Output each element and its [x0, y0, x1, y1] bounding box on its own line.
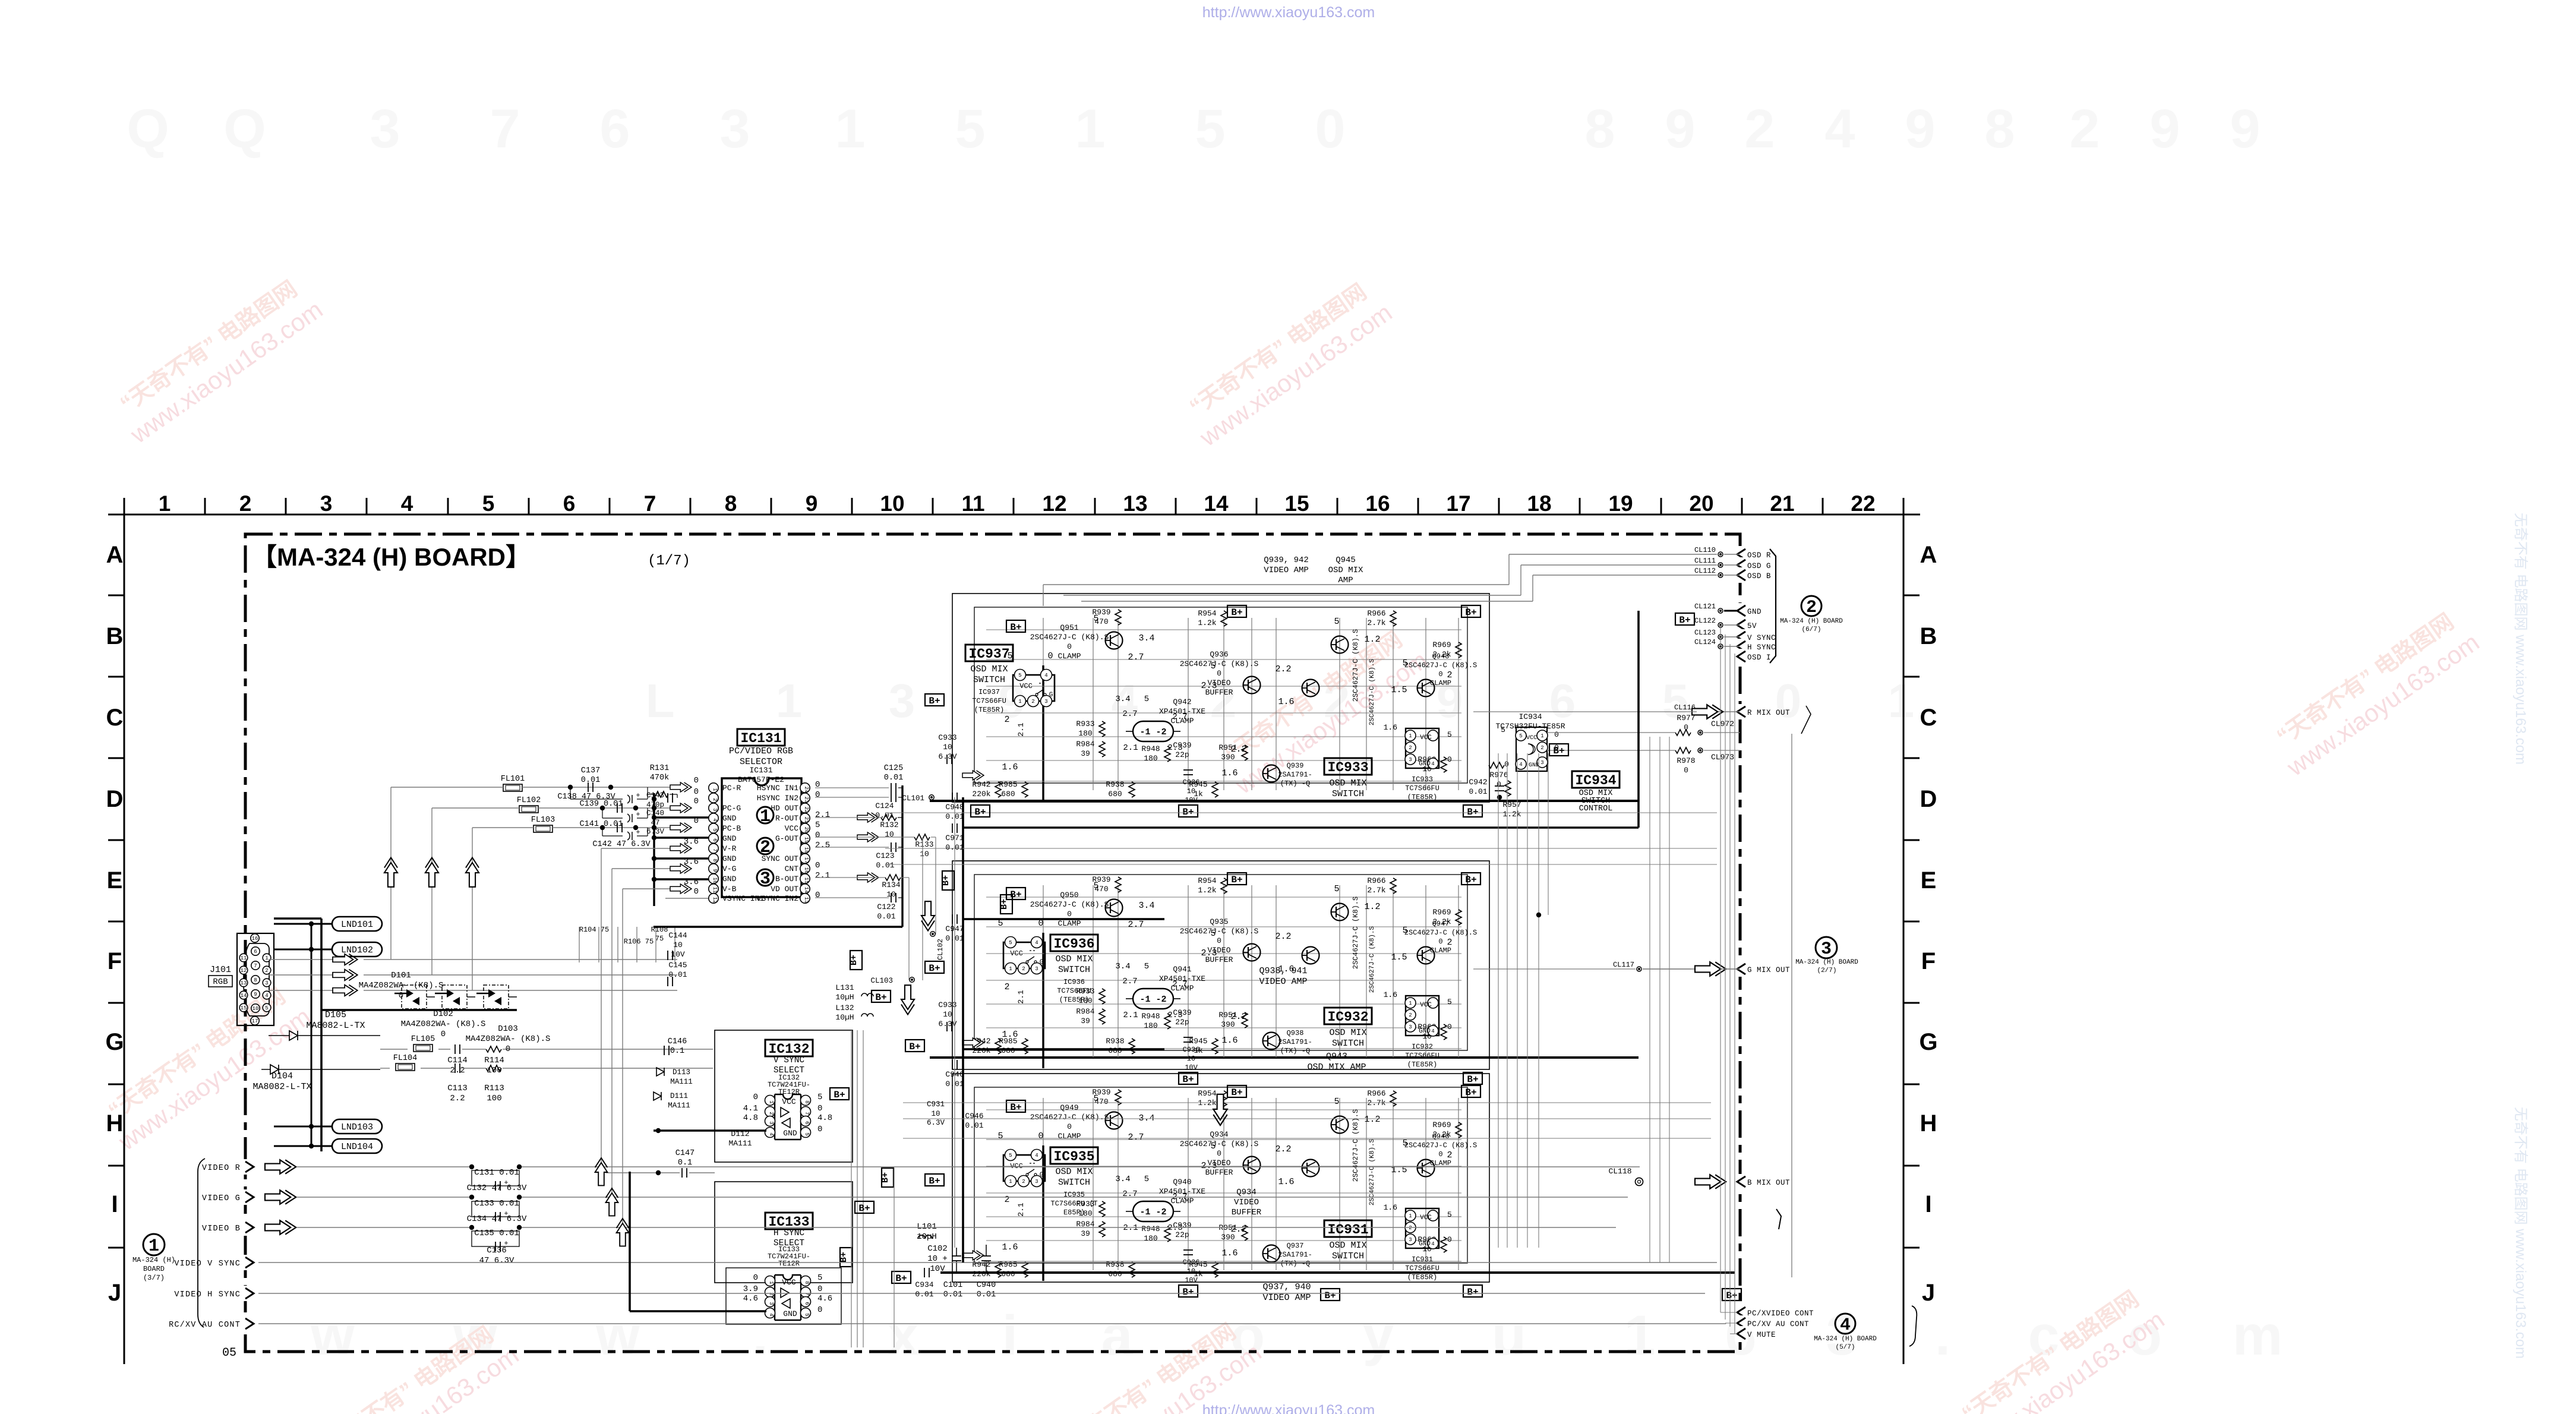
svg-text:5: 5: [482, 491, 495, 516]
svg-text:VIDEO R: VIDEO R: [202, 1164, 241, 1173]
svg-text:3: 3: [1035, 966, 1038, 972]
svg-text:3: 3: [1035, 1179, 1038, 1185]
svg-text:3.4: 3.4: [1115, 1175, 1130, 1184]
svg-text:Q936: Q936: [1210, 650, 1228, 659]
svg-text:(2/7): (2/7): [1817, 967, 1836, 974]
transistor Q936: [1243, 677, 1261, 694]
svg-text:10µH: 10µH: [835, 1013, 854, 1022]
svg-text:CONTROL: CONTROL: [1579, 804, 1613, 813]
svg-text:0.01: 0.01: [945, 934, 964, 943]
svg-text:17: 17: [1446, 491, 1470, 516]
brace group 2: [1770, 549, 1776, 663]
svg-text:CL124: CL124: [1694, 638, 1716, 646]
node VIDEO G: [243, 1189, 256, 1205]
node VIDEO R: [243, 1159, 256, 1175]
hollow down arrow CL103: [901, 985, 914, 1014]
svg-text:1.6: 1.6: [1278, 1177, 1294, 1187]
svg-text:2: 2: [760, 838, 771, 858]
svg-text:IC131: IC131: [749, 766, 772, 775]
svg-text:R134: R134: [882, 880, 900, 889]
svg-text:2: 2: [1004, 715, 1009, 725]
svg-text:3: 3: [768, 1302, 774, 1305]
transistor Q948: [1418, 680, 1435, 697]
svg-text:2.7k: 2.7k: [1367, 886, 1385, 895]
svg-text:R969: R969: [1432, 908, 1451, 917]
net LND103: [332, 1119, 382, 1134]
net LND101: [332, 917, 382, 931]
svg-text:1.2k: 1.2k: [1502, 810, 1521, 819]
svg-text:680: 680: [1001, 1046, 1015, 1055]
svg-text:m: m: [2233, 1304, 2283, 1367]
svg-text:OSD MIX: OSD MIX: [1329, 778, 1366, 788]
svg-text:C936: C936: [1183, 778, 1200, 787]
svg-text:20: 20: [1689, 491, 1713, 516]
svg-text:R945: R945: [1189, 1037, 1207, 1046]
svg-text:0: 0: [817, 1125, 822, 1134]
svg-text:5: 5: [817, 1273, 822, 1283]
svg-text:1.2k: 1.2k: [1198, 886, 1216, 895]
op-amp U IC936 label: [1050, 935, 1098, 951]
svg-text:MA-324 (H) BOARD: MA-324 (H) BOARD: [1780, 618, 1843, 625]
svg-text:MA-324 (H) BOARD: MA-324 (H) BOARD: [1814, 1336, 1877, 1343]
svg-text:1.5: 1.5: [1391, 685, 1407, 695]
svg-text:10: 10: [1187, 1267, 1195, 1276]
svg-text:Q937, 940: Q937, 940: [1262, 1282, 1311, 1292]
svg-text:(TE85R): (TE85R): [1407, 1273, 1437, 1282]
svg-text:Q: Q: [223, 99, 266, 159]
svg-text:0: 0: [1217, 669, 1221, 678]
svg-text:3: 3: [719, 99, 750, 159]
svg-text:2SC4627J-C (K8).S: 2SC4627J-C (K8).S: [1352, 1109, 1360, 1182]
svg-text:2.1: 2.1: [1123, 1011, 1138, 1020]
svg-text:R114: R114: [484, 1056, 504, 1065]
svg-text:2: 2: [1022, 966, 1025, 972]
svg-text:G: G: [105, 1029, 124, 1055]
svg-text:680: 680: [1001, 790, 1015, 798]
node 3 circled: [757, 869, 774, 886]
svg-text:VIDEO AMP: VIDEO AMP: [1264, 566, 1309, 575]
svg-text:1: 1: [776, 674, 803, 727]
svg-text:10V: 10V: [1185, 1276, 1198, 1284]
svg-text:0.1: 0.1: [678, 1159, 692, 1167]
svg-text:Q945: Q945: [1336, 555, 1356, 565]
svg-text:XP4501-TXE: XP4501-TXE: [1159, 974, 1205, 983]
svg-text:LND103: LND103: [341, 1122, 373, 1132]
svg-text:TC7S66FU (T: TC7S66FU (T: [1050, 1200, 1097, 1208]
svg-text:5: 5: [1334, 1097, 1339, 1107]
svg-text:B+: B+: [909, 1041, 920, 1052]
svg-text:R969: R969: [1432, 640, 1451, 649]
svg-text:Q935: Q935: [1210, 917, 1228, 926]
svg-text:Q947: Q947: [1432, 920, 1450, 928]
svg-text:B+: B+: [1467, 1074, 1478, 1085]
svg-text:VIDEO B: VIDEO B: [202, 1224, 241, 1233]
svg-text:R113: R113: [484, 1084, 504, 1093]
svg-text:OSD MIX: OSD MIX: [1328, 566, 1363, 575]
svg-text:C946: C946: [965, 1112, 983, 1121]
cap C113 2.2: [454, 1063, 456, 1073]
svg-text:PC-G: PC-G: [722, 804, 741, 813]
svg-text:GND: GND: [1419, 760, 1431, 768]
svg-text:10: 10: [885, 830, 894, 839]
svg-text:C145: C145: [668, 961, 687, 970]
svg-text:16: 16: [252, 936, 258, 942]
svg-text:2SC4627J-C (K8).S: 2SC4627J-C (K8).S: [1404, 1141, 1477, 1150]
node PC/XVIDEO CONT: [1735, 1305, 1748, 1320]
svg-text:L131: L131: [835, 983, 854, 992]
svg-text:1: 1: [1409, 1000, 1412, 1006]
svg-text:0.01: 0.01: [943, 1290, 962, 1299]
svg-text:Q942: Q942: [1173, 697, 1191, 706]
svg-text:0.01: 0.01: [581, 776, 600, 785]
svg-text:39: 39: [1081, 1229, 1090, 1238]
B+ vertical: [840, 1248, 852, 1267]
svg-text:2SC4627J-C (K8).S: 2SC4627J-C (K8).S: [1180, 1140, 1259, 1148]
svg-text:+: +: [636, 810, 640, 819]
svg-text:1: 1: [1009, 1179, 1012, 1185]
svg-text:6.3V: 6.3V: [938, 752, 956, 761]
svg-text:C: C: [1920, 705, 1937, 731]
svg-text:F: F: [1921, 948, 1936, 974]
svg-text:4: 4: [265, 993, 268, 999]
svg-text:R938: R938: [1106, 1037, 1124, 1046]
svg-text:4: 4: [1840, 1315, 1851, 1336]
svg-text:G: G: [1049, 692, 1053, 699]
svg-text:SWITCH: SWITCH: [1058, 1178, 1090, 1188]
svg-text:5: 5: [804, 1132, 810, 1135]
svg-text:16: 16: [1365, 491, 1390, 516]
svg-text:PC/XVIDEO CONT: PC/XVIDEO CONT: [1747, 1309, 1814, 1318]
svg-text:5: 5: [1144, 695, 1149, 704]
node 5V: [1735, 617, 1748, 633]
svg-text:G: G: [1040, 1172, 1044, 1179]
svg-text:F: F: [108, 948, 122, 974]
svg-text:2SC4627J-C (K8).S: 2SC4627J-C (K8).S: [1369, 658, 1376, 725]
node V MUTE: [1735, 1326, 1748, 1342]
svg-text:7: 7: [804, 1112, 810, 1115]
svg-text:680: 680: [1108, 790, 1122, 798]
svg-text:C936: C936: [1183, 1046, 1200, 1054]
svg-text:2: 2: [1031, 699, 1034, 705]
svg-text:D101: D101: [391, 971, 411, 980]
svg-text:C131 0.01: C131 0.01: [474, 1168, 519, 1178]
cap C946 0.01 G: [952, 1060, 953, 1069]
svg-text:3: 3: [1409, 1024, 1412, 1030]
svg-text:2.7: 2.7: [1128, 920, 1144, 930]
cap C101 0.01: [952, 1255, 961, 1257]
svg-text:180: 180: [1078, 729, 1092, 738]
svg-text:D103: D103: [498, 1024, 518, 1034]
svg-text:C114: C114: [447, 1056, 468, 1065]
svg-text:B+: B+: [1182, 1074, 1194, 1085]
svg-text:680: 680: [1108, 1046, 1122, 1055]
svg-text:MA8082-L-TX: MA8082-L-TX: [306, 1021, 365, 1031]
svg-text:CL123: CL123: [1694, 629, 1716, 637]
svg-text:0: 0: [1447, 1022, 1452, 1031]
svg-text:C931: C931: [927, 1100, 945, 1109]
svg-text:x: x: [888, 1304, 919, 1367]
svg-text:B+: B+: [849, 955, 859, 965]
svg-text:24: 24: [803, 787, 809, 793]
svg-text:2: 2: [1004, 982, 1009, 992]
svg-text:+: +: [636, 791, 640, 800]
svg-text:B+: B+: [1010, 622, 1021, 633]
svg-text:9: 9: [712, 869, 718, 872]
svg-text:A: A: [106, 542, 124, 568]
svg-text:0: 0: [1447, 1235, 1452, 1244]
transistor Q940: [1331, 1116, 1349, 1134]
svg-text:B+: B+: [1467, 807, 1478, 818]
svg-text:5: 5: [1144, 1175, 1149, 1184]
IC132 mini 8pin: [775, 1094, 801, 1099]
cap C948 0.01: [952, 793, 953, 802]
svg-text:5: 5: [1501, 725, 1505, 734]
svg-text:2: 2: [1447, 1150, 1452, 1160]
svg-text:0.1: 0.1: [670, 1047, 684, 1056]
svg-text:C147: C147: [675, 1149, 694, 1158]
svg-text:B+: B+: [1465, 875, 1476, 885]
svg-text:1: 1: [265, 955, 268, 961]
svg-text:0.01: 0.01: [945, 812, 964, 821]
svg-text:2.2: 2.2: [450, 1066, 465, 1075]
svg-text:5: 5: [1093, 614, 1098, 624]
svg-text:MA4Z082WA- (K8).S: MA4Z082WA- (K8).S: [359, 981, 444, 990]
transistor Q942: [1331, 636, 1349, 654]
svg-text:18: 18: [1527, 491, 1551, 516]
svg-text:VCC: VCC: [1420, 1214, 1432, 1222]
svg-text:Q949: Q949: [1060, 1103, 1078, 1112]
svg-text:4: 4: [1431, 761, 1434, 767]
svg-text:6.3V: 6.3V: [938, 1020, 956, 1028]
node G MIX OUT: [1735, 961, 1748, 977]
svg-text:B+: B+: [834, 1090, 845, 1100]
svg-text:3.4: 3.4: [1138, 901, 1154, 911]
svg-text:E85R): E85R): [1063, 1208, 1085, 1217]
svg-text:MA4Z082WA- (K8).S: MA4Z082WA- (K8).S: [466, 1034, 551, 1044]
transistor Q943: [1302, 1160, 1319, 1177]
svg-text:4: 4: [1044, 673, 1047, 678]
svg-text:GND: GND: [783, 1309, 797, 1318]
svg-text:R966: R966: [1367, 876, 1385, 885]
svg-text:B: B: [1920, 623, 1937, 649]
svg-text:PC/XV AU CONT: PC/XV AU CONT: [1747, 1320, 1809, 1328]
svg-text:20: 20: [803, 827, 809, 834]
svg-text:C939: C939: [1173, 1221, 1191, 1230]
svg-text:9: 9: [1905, 99, 1935, 159]
svg-text:1: 1: [1409, 733, 1412, 739]
svg-text:(TE85R): (TE85R): [974, 706, 1004, 714]
long verticals right of IC132/133: [851, 1030, 852, 1347]
svg-text:SWITCH: SWITCH: [973, 675, 1005, 685]
svg-text:VIDEO V SYNC: VIDEO V SYNC: [174, 1260, 241, 1268]
svg-text:Q951: Q951: [1060, 623, 1078, 632]
svg-text:Q943: Q943: [1326, 1052, 1347, 1062]
svg-text:R948: R948: [1141, 1224, 1160, 1233]
svg-text:C113: C113: [447, 1084, 468, 1093]
svg-text:5: 5: [955, 99, 985, 159]
svg-text:A: A: [1920, 542, 1937, 568]
svg-text:39: 39: [1081, 1017, 1090, 1025]
svg-text:2SC4627J-C (K8).S: 2SC4627J-C (K8).S: [1404, 929, 1477, 937]
svg-text:B MIX OUT: B MIX OUT: [1747, 1179, 1790, 1187]
svg-text:B+: B+: [1553, 746, 1564, 756]
svg-text:【MA-324 (H) BOARD】: 【MA-324 (H) BOARD】: [252, 543, 531, 571]
svg-text:B+: B+: [1324, 1290, 1336, 1301]
svg-text:C934: C934: [915, 1280, 933, 1289]
svg-text:2.3: 2.3: [1201, 948, 1217, 958]
svg-text:H: H: [1920, 1110, 1937, 1137]
svg-text:3.4: 3.4: [1115, 962, 1130, 971]
svg-text:5: 5: [1402, 1138, 1407, 1148]
svg-text:无奇不有 电路图网 www.xiaoyu163.com: 无奇不有 电路图网 www.xiaoyu163.com: [2512, 513, 2528, 765]
svg-text:2.2: 2.2: [1230, 744, 1246, 755]
svg-text:2: 2: [1409, 745, 1412, 751]
node RC/XV AU CONT: [243, 1316, 256, 1331]
svg-text:8: 8: [1584, 99, 1615, 159]
svg-text:2SC4627J-C (K8).S: 2SC4627J-C (K8).S: [1030, 1113, 1109, 1122]
input arrows to IC131 pins: [670, 782, 692, 792]
svg-text:2: 2: [239, 491, 252, 516]
svg-text:9: 9: [2149, 99, 2180, 159]
svg-text:Q938: Q938: [1287, 1029, 1304, 1037]
svg-text:HSYNC IN2: HSYNC IN2: [757, 794, 798, 803]
svg-text:14: 14: [803, 887, 809, 894]
thick bottom bus: [940, 1271, 1735, 1274]
surrounding box IC132: [715, 1030, 853, 1162]
svg-text:23: 23: [803, 797, 809, 803]
svg-text:2.7: 2.7: [1122, 977, 1137, 986]
svg-text:15: 15: [241, 1005, 247, 1011]
svg-text:SWITCH: SWITCH: [1332, 1039, 1364, 1049]
svg-text:2: 2: [768, 1292, 774, 1295]
svg-text:R948: R948: [1141, 1012, 1160, 1021]
svg-text:J: J: [1922, 1280, 1935, 1306]
svg-text:GND: GND: [1419, 1028, 1431, 1035]
svg-text:2.7: 2.7: [1122, 709, 1137, 719]
svg-text:CL122: CL122: [1694, 617, 1716, 625]
svg-text:2SC4627J-C (K8).S: 2SC4627J-C (K8).S: [1404, 661, 1477, 670]
svg-text:75: 75: [655, 935, 664, 943]
svg-text:Q939: Q939: [1287, 762, 1304, 770]
svg-text:OSD MIX: OSD MIX: [1055, 1167, 1093, 1177]
svg-text:VCC: VCC: [785, 824, 799, 833]
svg-text:2SC4627J-C (K8).S: 2SC4627J-C (K8).S: [1030, 633, 1109, 642]
svg-text:1: 1: [1888, 674, 1915, 727]
caps C131..C136 stack: [472, 1170, 519, 1186]
svg-text:BOARD: BOARD: [143, 1265, 165, 1273]
svg-text:1.6: 1.6: [1221, 768, 1238, 778]
clamp dual transistor: [1133, 1201, 1173, 1222]
svg-text:MA4Z082WA- (K8).S: MA4Z082WA- (K8).S: [401, 1020, 486, 1029]
svg-text:8: 8: [1984, 99, 2015, 159]
resistor R113 100: [486, 1065, 501, 1071]
B+ vertical right: [882, 1168, 894, 1187]
svg-text:5: 5: [1018, 673, 1021, 678]
svg-text:E: E: [107, 867, 123, 894]
svg-text:2.1: 2.1: [1016, 990, 1025, 1004]
thick corner near IC133: [629, 1172, 631, 1311]
svg-text:R106 75: R106 75: [624, 938, 654, 946]
svg-text:47 6.3V: 47 6.3V: [479, 1256, 514, 1265]
svg-text:IC933: IC933: [1327, 760, 1368, 775]
svg-text:GND: GND: [722, 854, 737, 863]
svg-text:10µH: 10µH: [835, 993, 854, 1002]
thick vertical right of IC131: [901, 785, 903, 927]
node 2 circled: [757, 838, 774, 854]
svg-text:6: 6: [804, 1121, 810, 1124]
svg-text:6.3V: 6.3V: [927, 1119, 945, 1127]
svg-text:4: 4: [1431, 1241, 1434, 1247]
node VIDEO V SYNC: [243, 1255, 256, 1270]
svg-text:+: +: [636, 828, 640, 837]
svg-text:5: 5: [1519, 733, 1522, 739]
svg-text:10µH: 10µH: [917, 1232, 937, 1242]
transistor Q934: [1243, 1157, 1261, 1174]
svg-text:CNT: CNT: [785, 864, 799, 873]
svg-text:(TE85R): (TE85R): [1407, 793, 1437, 801]
cap C934 0.01 B: [924, 1268, 925, 1277]
svg-text:CL103: CL103: [870, 977, 893, 985]
svg-text:7: 7: [644, 491, 656, 516]
surrounding box IC133: [715, 1182, 853, 1283]
svg-text:VIDEO AMP: VIDEO AMP: [1262, 1293, 1311, 1303]
svg-text:6: 6: [254, 949, 257, 955]
svg-text:B+: B+: [1465, 1087, 1476, 1098]
svg-text:R132: R132: [880, 820, 898, 829]
svg-text:4.8: 4.8: [817, 1113, 832, 1123]
svg-text:B+: B+: [974, 807, 986, 818]
svg-text:(TX) -Q: (TX) -Q: [1280, 1260, 1310, 1268]
svg-text:B+: B+: [929, 696, 940, 706]
svg-text:5: 5: [1210, 1141, 1216, 1151]
svg-text:7: 7: [490, 99, 520, 159]
node B MIX OUT: [1735, 1174, 1748, 1189]
svg-text:2.1: 2.1: [1123, 1223, 1138, 1233]
op-amp U IC932 label: [1324, 1008, 1372, 1024]
svg-text:FL104: FL104: [393, 1054, 418, 1063]
svg-text:a: a: [1101, 1304, 1134, 1367]
svg-text:14: 14: [241, 993, 247, 999]
svg-text:0: 0: [815, 861, 820, 870]
svg-text:1: 1: [768, 1281, 774, 1284]
svg-text:0: 0: [815, 831, 820, 840]
svg-text:5: 5: [1334, 617, 1339, 627]
svg-text:2: 2: [1540, 745, 1543, 751]
node V SYNC: [1735, 629, 1748, 645]
svg-text:5: 5: [997, 1131, 1003, 1141]
svg-text:CL102: CL102: [936, 939, 945, 960]
op-amp U IC131 label: [737, 729, 785, 746]
svg-text:Q934: Q934: [1236, 1188, 1257, 1197]
svg-text:12: 12: [712, 897, 718, 904]
mid horizontal bus lines between channels: [885, 812, 1717, 813]
svg-text:22p: 22p: [1175, 750, 1189, 759]
svg-text:B+: B+: [1467, 1287, 1478, 1298]
svg-text:VCC: VCC: [1526, 735, 1537, 741]
svg-text:L132: L132: [835, 1003, 854, 1012]
transistor Q946: [1418, 1160, 1435, 1177]
svg-text:4: 4: [1824, 99, 1855, 159]
svg-text:Q: Q: [127, 99, 169, 159]
svg-text:OSD MIX: OSD MIX: [1329, 1028, 1366, 1038]
svg-text:0: 0: [815, 891, 820, 900]
svg-text:GND: GND: [1529, 762, 1539, 769]
svg-text:1.6: 1.6: [1384, 990, 1397, 999]
svg-text:R984: R984: [1076, 740, 1094, 749]
svg-text:19: 19: [803, 837, 809, 844]
svg-text:8: 8: [804, 1281, 810, 1284]
svg-text:-1 -2: -1 -2: [1139, 995, 1166, 1005]
